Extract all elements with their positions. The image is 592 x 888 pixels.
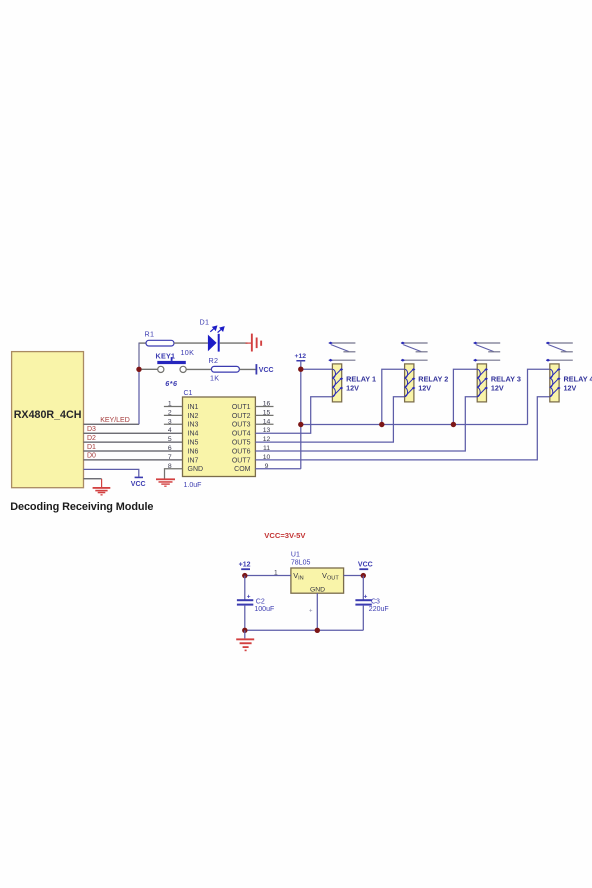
svg-text:OUT1: OUT1: [232, 404, 251, 411]
svg-text:VCC: VCC: [259, 367, 274, 374]
wire regulator GND down: [316, 593, 318, 630]
ic C1 pin14 stub: [255, 423, 273, 425]
svg-text:100uF: 100uF: [254, 606, 274, 613]
junction dot +12 top: [298, 367, 303, 372]
wire R1 left lead to junction: [139, 342, 146, 344]
svg-text:VCC=3V-5V: VCC=3V-5V: [264, 531, 306, 540]
resistor R1: [146, 340, 174, 346]
svg-text:6: 6: [168, 445, 172, 452]
svg-text:IN5: IN5: [188, 440, 199, 447]
wire D0 (module to U1 pin7): [84, 459, 183, 461]
svg-text:1K: 1K: [210, 373, 219, 382]
wire KEY/LED net: [84, 423, 140, 425]
wire riser to relay4 coil top: [528, 369, 550, 424]
svg-text:1.0uF: 1.0uF: [184, 482, 202, 489]
svg-text:+: +: [247, 593, 251, 600]
push button KEY1: [158, 366, 164, 372]
svg-text:5: 5: [168, 436, 172, 443]
junction dot key node: [136, 367, 141, 372]
svg-text:OUT2: OUT2: [232, 413, 251, 420]
svg-text:+12: +12: [239, 562, 251, 569]
svg-text:IN1: IN1: [188, 404, 199, 411]
ic C1 pin3 stub: [164, 423, 183, 425]
wire KEY1 to R2: [186, 368, 211, 370]
relay K3 contact switch: [473, 342, 500, 362]
wire OUT5 pin12 to relay2 coil: [255, 397, 404, 442]
svg-text:OUT7: OUT7: [232, 457, 251, 464]
svg-text:7: 7: [168, 454, 172, 461]
junction dot bus 3: [451, 422, 456, 427]
wire D1 (module to U1 pin6): [84, 450, 183, 452]
svg-text:78L05: 78L05: [291, 559, 311, 566]
wire regulator VOUT to VCC: [344, 575, 364, 577]
svg-text:IN2: IN2: [188, 413, 199, 420]
svg-text:IN3: IN3: [188, 422, 199, 429]
svg-text:+12: +12: [295, 353, 307, 360]
relay K2 contact switch: [401, 342, 428, 362]
svg-text:220uF: 220uF: [369, 606, 389, 613]
wire +12 to regulator VIN: [245, 575, 291, 577]
wire OUT4 pin13 to relay1 coil: [255, 397, 332, 433]
power symbol VCC below module: [135, 477, 143, 479]
svg-text:12V: 12V: [491, 384, 504, 393]
power symbol VCC right of R2: [256, 364, 258, 374]
svg-text:VCC: VCC: [131, 481, 146, 488]
svg-text:12V: 12V: [564, 384, 577, 393]
wire junction to KEY1: [142, 368, 158, 370]
relay K1 contact switch: [328, 342, 355, 362]
svg-text:R1: R1: [145, 330, 155, 339]
ic C1 body: [183, 397, 256, 477]
svg-text:+: +: [364, 593, 368, 600]
svg-text:OUT3: OUT3: [232, 422, 251, 429]
svg-text:4: 4: [168, 427, 172, 434]
ground symbol below ic pin8: [156, 478, 175, 486]
wire ground bus: [245, 629, 363, 631]
capacitor C3 220uF: [362, 576, 364, 600]
junction dot bus 2: [379, 422, 384, 427]
wire OUT7 pin10 to relay4 coil: [255, 397, 549, 460]
relay K1 coil RELAY 1 12V: [332, 364, 343, 402]
wire OUT6 pin11 to relay3 coil: [255, 397, 477, 451]
svg-text:1: 1: [274, 569, 278, 576]
wire +12 vertical: [300, 360, 302, 469]
svg-text:D1: D1: [200, 318, 210, 327]
junction dot gnd bus left: [242, 628, 247, 633]
wire R1 to LED D1: [174, 342, 208, 344]
svg-text:D1: D1: [87, 444, 96, 451]
wire module GND: [84, 478, 102, 480]
capacitor C2 100uF: [244, 576, 246, 600]
junction dot +12 input: [242, 573, 247, 578]
svg-text:C3: C3: [371, 599, 380, 606]
svg-text:C1: C1: [184, 390, 193, 397]
ic C1 pin1 stub: [164, 406, 183, 408]
relay K2 coil RELAY 2 12V: [405, 364, 416, 402]
wire riser to relay2 coil top: [382, 369, 405, 424]
svg-text:12V: 12V: [418, 384, 431, 393]
ground symbol power section: [244, 630, 246, 638]
svg-text:IN7: IN7: [188, 457, 199, 464]
ic C1 pin15 stub: [255, 414, 273, 416]
svg-text:KEY/LED: KEY/LED: [100, 417, 130, 424]
svg-text:RELAY 2: RELAY 2: [418, 375, 448, 384]
relay K4 contact switch: [546, 342, 573, 362]
svg-text:RELAY 3: RELAY 3: [491, 375, 521, 384]
svg-text:VCC: VCC: [358, 562, 373, 569]
ic C1 pin16 stub: [255, 406, 273, 408]
svg-text:IN6: IN6: [188, 448, 199, 455]
junction dot bus 1: [298, 422, 303, 427]
svg-text:KEY1: KEY1: [156, 351, 176, 360]
svg-text:R2: R2: [209, 356, 219, 365]
LED D1: [208, 335, 217, 352]
svg-text:GND: GND: [310, 587, 325, 594]
wire D2 (module to U1 pin5): [84, 441, 183, 443]
wire LED cathode to ground: [220, 342, 248, 344]
svg-text:D0: D0: [87, 453, 96, 460]
svg-text:OUT4: OUT4: [232, 431, 251, 438]
svg-text:IN4: IN4: [188, 431, 199, 438]
svg-text:D2: D2: [87, 435, 96, 442]
svg-text:COM: COM: [234, 466, 251, 473]
wire +12 bus horizontal: [301, 424, 528, 426]
svg-text:Decoding Receiving Module: Decoding Receiving Module: [10, 501, 153, 513]
wire riser to relay3 coil top: [453, 369, 477, 424]
svg-text:U1: U1: [291, 552, 300, 559]
ground symbol right of D1 (rotated): [251, 334, 262, 352]
svg-text:RELAY 1: RELAY 1: [346, 375, 376, 384]
svg-text:RX480R_4CH: RX480R_4CH: [14, 409, 82, 421]
svg-text:10K: 10K: [181, 348, 195, 357]
ic C1 pin2 stub: [164, 414, 183, 416]
svg-text:C2: C2: [256, 599, 265, 606]
wire COM pin9 to +12: [255, 468, 300, 470]
junction dot VCC output: [361, 573, 366, 578]
svg-text:OUT5: OUT5: [232, 440, 251, 447]
relay K4 coil RELAY 4 12V: [550, 364, 561, 402]
svg-text:12V: 12V: [346, 384, 359, 393]
resistor R2: [211, 366, 239, 372]
wire +12 to relay1 coil top: [301, 368, 333, 370]
junction dot gnd bus middle: [315, 628, 320, 633]
svg-text:OUT6: OUT6: [232, 448, 251, 455]
svg-text:+: +: [309, 609, 313, 615]
svg-text:GND: GND: [188, 466, 204, 473]
svg-text:D3: D3: [87, 426, 96, 433]
module U2 RX480R_4CH: [12, 352, 84, 488]
wire R2 to VCC: [239, 368, 256, 370]
wire D3 (module to U1 pin4): [84, 432, 183, 434]
ic C1 pin8 GND stub: [165, 469, 183, 479]
svg-text:RELAY 4: RELAY 4: [564, 375, 592, 384]
wire module VCC: [84, 469, 139, 476]
relay K3 coil RELAY 3 12V: [477, 364, 488, 402]
ground symbol below module: [93, 487, 111, 496]
svg-text:6*6: 6*6: [165, 379, 178, 388]
